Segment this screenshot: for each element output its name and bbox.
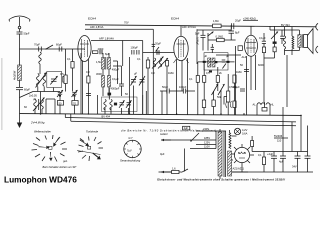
svg-text:0,5: 0,5 [60, 72, 64, 76]
lower coil pair L3 [34, 100, 37, 110]
svg-text:50pF: 50pF [162, 85, 168, 89]
svg-text:4000pF: 4000pF [111, 87, 120, 91]
resistor box d [212, 100, 215, 107]
core blob IFT3 [215, 61, 218, 63]
thin diagonal [77, 151, 101, 155]
blob below can [209, 71, 212, 73]
wires around boxes [198, 62, 235, 115]
resistor 4k wirewound [18, 65, 22, 81]
svg-text:100pF: 100pF [131, 46, 139, 50]
svg-text:Gleichstrom- und Wechselstromw: Gleichstrom- und Wechselstromwerte ohne … [157, 177, 285, 181]
switch on antenna bus [46, 45, 53, 49]
tuning capacitor gang2 [139, 76, 145, 86]
capacitor blob above box2 [108, 93, 112, 96]
wire heater line 2 [91, 40, 143, 42]
svg-text:5µF: 5µF [195, 32, 200, 36]
svg-text:8µF: 8µF [235, 31, 240, 35]
selector switch arm [191, 133, 199, 141]
wire tube2 top to rail [180, 26, 182, 37]
resistor box a [196, 76, 199, 83]
transformer secondary upper zigzag [229, 133, 231, 149]
capacitor 50pF agc [160, 89, 177, 94]
capacitor 50pF antenna [17, 32, 23, 49]
sub box caps 100pF [122, 41, 124, 67]
transformer secondary lower [228, 151, 232, 176]
resistor small below tube1 [92, 51, 98, 54]
resistor right of box [63, 77, 66, 83]
resistor near tube1 right [146, 60, 149, 68]
svg-text:isoliert: isoliert [160, 132, 168, 136]
resistor osc [166, 61, 169, 67]
svg-text:34V: 34V [292, 165, 297, 169]
wire sub rail B+ [65, 118, 296, 122]
svg-text:AZ1/AZ11: AZ1/AZ11 [233, 167, 245, 171]
rectifier tube AZ1 [234, 147, 249, 162]
box tuning section [47, 72, 62, 88]
svg-text:Ω 7: Ω 7 [129, 136, 134, 140]
svg-text:Gesamtschaltung: Gesamtschaltung [120, 159, 141, 163]
pilot lamp [234, 128, 240, 134]
capacitor 60pF lower [16, 88, 23, 90]
trimmer small [156, 47, 160, 52]
wire [19, 81, 21, 88]
svg-text:0,1MΩ: 0,1MΩ [216, 35, 224, 39]
scan artifact strip left edge [1, 58, 3, 130]
svg-text:0,1µF: 0,1µF [112, 77, 119, 81]
coil L1 spiral [37, 74, 40, 87]
svg-text:0µF: 0µF [160, 152, 165, 156]
potentiometer volume [227, 91, 230, 102]
svg-text:6000: 6000 [258, 63, 264, 67]
tube ECH4 no1 [78, 36, 91, 62]
tube AL4 output [245, 35, 258, 56]
capacitor right col x282 [280, 30, 284, 44]
wire tube1 pins down [82, 59, 88, 114]
svg-text:1MΩ: 1MΩ [236, 70, 242, 74]
resistor column x274 [273, 47, 276, 52]
svg-text:0,6A: 0,6A [242, 132, 248, 136]
wire antenna bus [20, 48, 86, 50]
electrolytic cap 1 [271, 156, 277, 158]
lower coil pair L4 [41, 100, 44, 110]
output transformer winding [298, 35, 301, 48]
svg-text:4000: 4000 [98, 47, 104, 51]
cap and arrow in can [222, 60, 226, 69]
pointer arrows mid bottom [161, 140, 171, 172]
wire [19, 90, 21, 114]
wire grid cap [250, 26, 252, 35]
bold arrow down [49, 152, 53, 161]
capacitor 5uF [201, 30, 206, 44]
IF transformer 1 winding A [102, 58, 105, 70]
wires mid top [197, 29, 236, 64]
trimmer column x60 [58, 92, 62, 94]
wires below coils [20, 87, 61, 114]
tube socket arcs [226, 101, 227, 108]
svg-text:µF: µF [33, 97, 36, 101]
core line L3L4 [38, 99, 40, 110]
svg-text:AFF 1,8V/4A: AFF 1,8V/4A [99, 37, 114, 41]
svg-text:0,1: 0,1 [189, 77, 193, 81]
connector arc right top [316, 23, 318, 30]
oscillator coil A [153, 58, 155, 67]
capacitor blob right IFT3 [226, 61, 229, 63]
wire det line [198, 61, 235, 63]
coil arrows [152, 57, 164, 69]
IF transformer 1 winding C [102, 76, 105, 88]
svg-text:ECH4: ECH4 [171, 17, 179, 21]
fuse [172, 170, 179, 173]
capacitor 60pF [59, 47, 62, 52]
wires tube AL4 pins [247, 55, 256, 115]
resistor box c [202, 100, 205, 108]
svg-text:125V: 125V [204, 141, 210, 145]
hum coil HL [266, 103, 270, 105]
wire heater line 1 [85, 28, 153, 30]
cathode capacitor AL4 [244, 70, 249, 72]
wire tube2 pins [177, 58, 188, 115]
tuning capacitor gang1 [131, 76, 137, 86]
svg-text:2µF: 2µF [184, 126, 189, 130]
wire HT top rail [85, 25, 317, 27]
coil arrow [36, 73, 47, 88]
tube ECH4 no2 [174, 36, 188, 60]
speaker cone [304, 29, 313, 54]
svg-text:+240 42kΩ: +240 42kΩ [243, 17, 256, 21]
capacitor 8uF [229, 25, 235, 40]
svg-text:Lumophon WD476: Lumophon WD476 [4, 174, 77, 184]
capacitor at tube1 cathode [86, 94, 91, 96]
capacitor 100pF agc [177, 89, 195, 94]
resistor box e [216, 76, 219, 83]
svg-text:0,1µF: 0,1µF [259, 36, 266, 40]
svg-text:1,5k: 1,5k [96, 60, 102, 64]
wires column x274 [264, 26, 275, 102]
svg-text:BV 494: BV 494 [102, 114, 111, 118]
capacitor 0,1uF left of AZ [240, 89, 245, 91]
svg-text:70V: 70V [124, 21, 129, 25]
svg-text:Beim Schalter drehen um 90°: Beim Schalter drehen um 90° [43, 165, 77, 169]
svg-text:100pF: 100pF [179, 85, 187, 89]
wire cap top bus [252, 151, 307, 153]
wire osc grid [143, 52, 174, 54]
resistor box f [233, 75, 236, 83]
coil L2 spiral [43, 74, 46, 87]
svg-text:AL4: AL4 [242, 55, 247, 59]
trimmer column x74.5 [72, 92, 76, 94]
tube2 pin stubs [174, 60, 189, 64]
capacitor 20uF on rail [231, 23, 233, 29]
svg-text:gez.: gez. [63, 160, 68, 163]
mains wiring [159, 140, 191, 172]
oscillator coil B [159, 58, 161, 67]
svg-text:1,6: 1,6 [172, 167, 176, 171]
coil antenna input [39, 52, 42, 64]
chassis ground arrow [17, 114, 22, 128]
svg-text:0,5: 0,5 [206, 71, 210, 75]
IF transformer 1 winding B [108, 58, 111, 70]
capacitor 70pF [39, 47, 42, 52]
resistor box b [203, 76, 206, 83]
svg-text:0,05µF: 0,05µF [196, 37, 200, 46]
wires AZ1 [242, 144, 254, 172]
IF transformer 3 winding A [208, 58, 211, 67]
coupling wire [216, 54, 241, 56]
capacitor small mid [119, 84, 124, 96]
bold arrow upright [53, 138, 59, 147]
capacitor blob left IFT3 [203, 61, 206, 63]
wire antenna down lead [19, 49, 21, 65]
Gesamtschaltung dial [124, 140, 141, 157]
coil in box2 b [110, 100, 112, 110]
svg-text:4µF: 4µF [279, 160, 284, 164]
svg-text:60pF: 60pF [56, 43, 62, 47]
svg-text:BV 494: BV 494 [281, 23, 290, 27]
svg-text:Wellenschalter: Wellenschalter [34, 129, 51, 133]
svg-text:AFF 470mA: AFF 470mA [182, 25, 196, 29]
misc tiny labels [24, 52, 264, 109]
resistor box g [233, 101, 236, 108]
svg-text:Tonblende: Tonblende [86, 129, 99, 133]
svg-text:die Bereiche Nr. 71/80 Drahtw: die Bereiche Nr. 71/80 Drahtwiderstands-… [121, 129, 216, 133]
PSU bottom rail [232, 171, 313, 173]
IF transformer 3 winding B [212, 58, 215, 67]
trimmer in box2 [119, 100, 125, 108]
svg-text:4kΩ/5W: 4kΩ/5W [13, 70, 17, 80]
svg-text:µF: µF [204, 54, 207, 58]
antenna [9, 16, 30, 32]
wire sub rail 2 [71, 121, 296, 126]
resistor on HT rail [213, 24, 222, 28]
resistor 0,3M vertical [64, 75, 67, 84]
svg-text:20pF: 20pF [155, 42, 161, 46]
wire risers to sub rails [65, 107, 307, 152]
box under hum coil [262, 108, 267, 112]
svg-text:0,1: 0,1 [258, 153, 262, 157]
Tonblende sketch [88, 146, 91, 149]
wires around box2 [97, 88, 146, 114]
svg-text:70pF: 70pF [34, 43, 40, 47]
detector diode arrows [212, 84, 225, 95]
wires transformer [220, 129, 248, 179]
core [301, 34, 303, 48]
svg-text:240V: 240V [203, 127, 209, 131]
tuning capacitor [50, 76, 57, 85]
Wellenschalter sketch [49, 146, 52, 149]
svg-text:AL: AL [253, 103, 257, 107]
arrow across L3L4 [33, 98, 45, 112]
diagonal arrow mid [208, 32, 214, 37]
core blob in box2 [114, 103, 117, 106]
svg-text:µF: µF [134, 72, 137, 76]
trimmer in box2 b [126, 100, 132, 108]
resistor grid tube1 [87, 76, 90, 83]
resistor 0,1M horizontal [217, 38, 225, 41]
wire verticals mid [148, 29, 167, 114]
electrolytic cap 2 [280, 156, 286, 158]
svg-text:0,5MΩ: 0,5MΩ [229, 85, 237, 89]
wire vertical [221, 46, 236, 115]
coil in box2 [104, 100, 106, 110]
wire [130, 41, 143, 115]
resistor 2 in PSU [262, 157, 265, 165]
svg-text:60pF: 60pF [24, 88, 30, 92]
voltage selector lines [190, 131, 226, 149]
wire main ground rail [20, 114, 302, 116]
svg-text:185V: 185V [204, 136, 210, 140]
svg-text:HL: HL [271, 103, 275, 107]
svg-text:AFF 4,8V/A: AFF 4,8V/A [90, 25, 104, 29]
speaker field choke [283, 36, 285, 49]
electrolytic cap 4 [305, 156, 311, 158]
IF transformer 1 winding D [108, 76, 111, 88]
resistor in PSU [251, 141, 254, 147]
wire IFT1 right drops [113, 61, 122, 84]
transformer core [224, 131, 226, 177]
bold arrow tonblende b [92, 153, 101, 160]
svg-text:8µF: 8µF [105, 52, 110, 56]
svg-text:+4µF: +4µF [267, 152, 273, 156]
svg-text:ECH4: ECH4 [88, 17, 96, 21]
core [105, 57, 107, 70]
svg-text:2x0,05: 2x0,05 [29, 94, 37, 98]
svg-text:4,2V: 4,2V [242, 128, 248, 132]
resistor below cap [262, 47, 265, 53]
svg-text:5V/466: 5V/466 [274, 134, 283, 138]
svg-text:110: 110 [277, 139, 282, 143]
svg-text:50k: 50k [217, 95, 222, 99]
capacitor near AL4 [262, 33, 266, 47]
grid capacitor tube2 [157, 50, 159, 54]
cap above can [211, 44, 214, 53]
svg-text:0,3: 0,3 [86, 70, 90, 74]
band filter box 2 [102, 97, 138, 112]
svg-text:1MΩ: 1MΩ [168, 71, 174, 75]
wires speaker area [270, 27, 299, 108]
svg-text:400pF: 400pF [112, 68, 120, 72]
wire vertical [72, 49, 74, 62]
wires IFT1 [103, 53, 109, 96]
capacitor bars below tube1 [100, 50, 102, 54]
svg-text:0,3: 0,3 [151, 71, 155, 75]
svg-text:1,8Ω: 1,8Ω [213, 19, 219, 23]
svg-text:110V: 110V [204, 145, 210, 149]
bold arrow left [39, 146, 50, 149]
small box top right [238, 46, 242, 51]
svg-text:20µF: 20µF [235, 19, 241, 23]
junction dots on rail [40, 113, 302, 116]
svg-text:µF: µF [226, 54, 229, 58]
transformer primary [218, 132, 222, 176]
bold arrow tonblende a [80, 140, 90, 147]
electrolytic cap 3 [295, 156, 301, 158]
field coil zigzag [292, 36, 294, 49]
svg-text:3000: 3000 [96, 72, 102, 76]
connector arc right mid [316, 46, 318, 53]
svg-text:50pF: 50pF [24, 32, 30, 36]
capacitor on 153 wire [152, 44, 155, 46]
oscillator can box [204, 53, 228, 70]
svg-text:0,1: 0,1 [67, 57, 71, 61]
svg-text:2V=4,8V/kg: 2V=4,8V/kg [30, 121, 45, 125]
trimmer column x274 [271, 32, 278, 40]
hum coil AL [257, 103, 265, 105]
svg-text:0,1: 0,1 [137, 57, 141, 61]
wire vertical [80, 53, 82, 114]
svg-text:7µV: 7µV [127, 149, 132, 153]
capacitor blob column x274 [273, 42, 277, 44]
